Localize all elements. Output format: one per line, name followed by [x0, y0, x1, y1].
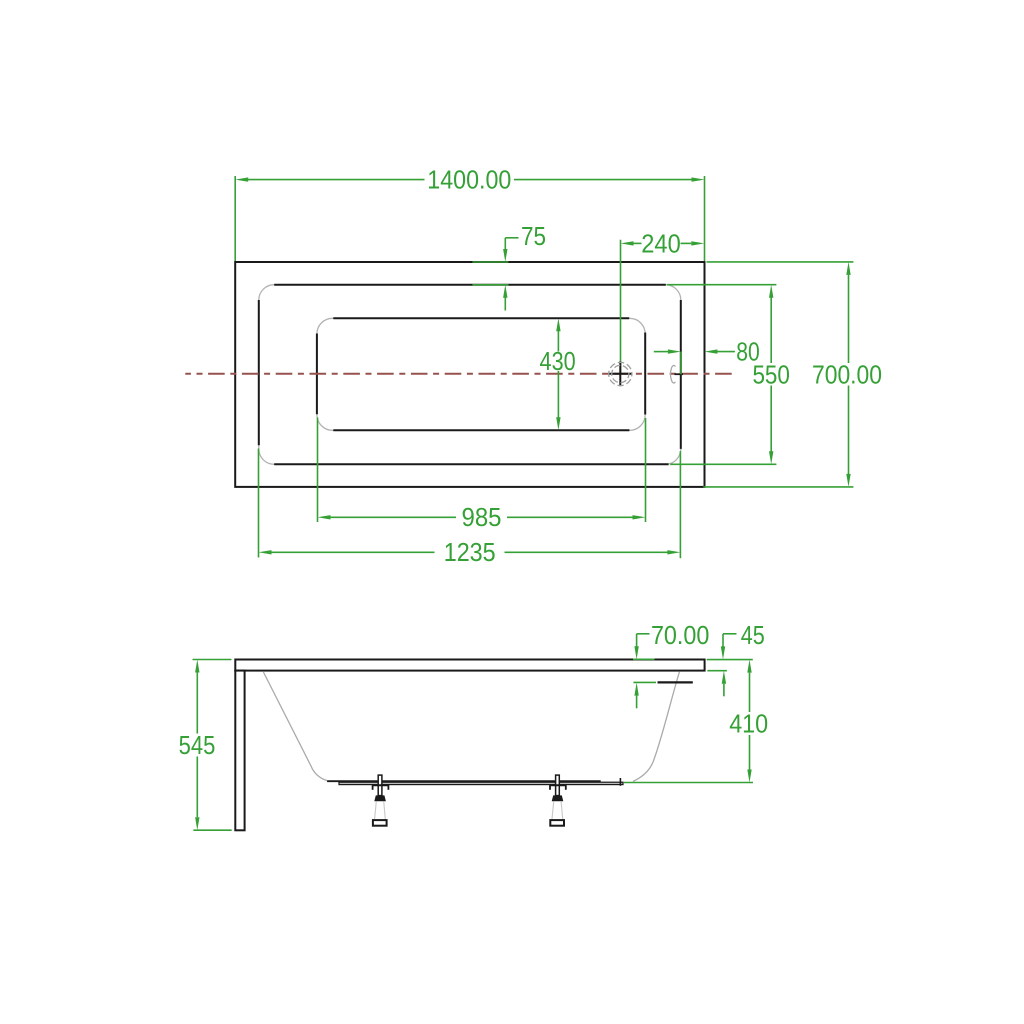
dimension 985 line [330, 516, 456, 518]
80-dimension extension overlay at inner rim edge [680, 352, 682, 375]
inner rim rounded corner arcs (gray) [259, 285, 681, 465]
985 arrows [318, 515, 331, 519]
side view arrowheads [195, 646, 752, 830]
inner rim straight edges (black) [259, 285, 681, 465]
bracket flange end ticks [549, 784, 551, 789]
foot pad [373, 820, 387, 826]
dimension 550 extension lines [667, 284, 776, 286]
left apron panel [235, 671, 244, 831]
leg cone [375, 801, 386, 820]
svg-text:1400.00: 1400.00 [427, 165, 511, 195]
deck rim bar (side view) [235, 660, 704, 671]
overflow level line [658, 681, 693, 683]
drain cross vertical [619, 361, 621, 386]
rail right end tick [619, 778, 621, 786]
70.00 arrows [634, 646, 638, 659]
overflow center tick [675, 373, 683, 375]
tub floor line [327, 780, 601, 782]
dimension 545 extension lines [193, 659, 232, 661]
dimension 410 line [749, 673, 751, 712]
430 arrows [556, 318, 560, 331]
dimension 70.00 witness overlays [633, 658, 655, 660]
550 arrows [769, 285, 773, 298]
1400.00 arrows [235, 177, 248, 181]
dimension 410 extension lines [707, 659, 753, 661]
dimension 550 line [770, 298, 772, 364]
svg-text:700.00: 700.00 [812, 359, 882, 389]
side view dimension texts [179, 620, 769, 760]
545 arrows [195, 660, 199, 673]
75 arrows [503, 249, 507, 262]
dimension 70.00 hook [636, 634, 638, 647]
svg-text:70.00: 70.00 [651, 620, 710, 650]
dimension 700.00 extension lines [707, 261, 854, 263]
svg-text:45: 45 [741, 620, 765, 650]
svg-text:545: 545 [179, 730, 216, 760]
bracket flange end ticks [372, 784, 374, 789]
drain cross horizontal [608, 373, 632, 375]
support rail [339, 782, 623, 784]
dimension 45 lower extension [707, 670, 727, 672]
bracket flange bar [550, 784, 566, 786]
tub left wall profile (gray) [263, 672, 327, 781]
dimension 700.00 line [848, 275, 850, 363]
overflow hole ellipse (open right) [671, 365, 676, 383]
red dash-dot centerline [185, 373, 733, 375]
dimension 1235 extension lines [258, 449, 260, 558]
svg-text:1235: 1235 [444, 537, 496, 567]
dimension 985 extension lines [317, 418, 319, 523]
svg-text:550: 550 [752, 359, 790, 389]
leg cone [552, 801, 563, 820]
410 arrows [747, 660, 751, 673]
240 arrows [621, 241, 634, 245]
svg-text:75: 75 [521, 221, 546, 251]
dimension 75 witness overlays [472, 261, 508, 263]
svg-text:985: 985 [462, 502, 502, 532]
dimension 80 shafts [654, 351, 669, 353]
leg nut (filled) [552, 795, 564, 801]
side view dimension lines [193, 634, 754, 830]
leg assembly right [550, 775, 566, 826]
svg-text:240: 240 [641, 228, 681, 258]
drain outer dashed circle [609, 362, 632, 385]
dimension 75 hook and shafts [504, 238, 506, 250]
tub right wall profile (gray) [633, 672, 680, 782]
dimension 545 line [196, 673, 198, 734]
dimension texts (top view) [427, 165, 882, 568]
45 arrows [721, 646, 725, 659]
leg nut (filled) [374, 795, 386, 801]
bolt shaft (outlined) [378, 775, 382, 796]
leg assembly left [372, 775, 388, 826]
dimension 1400.00 extension lines [234, 176, 236, 261]
svg-text:430: 430 [540, 346, 576, 376]
bracket flange bar [372, 784, 388, 786]
dimension 430 line [557, 331, 559, 352]
dimension 1235 line [271, 551, 434, 553]
tub floor rounded corner arcs (gray) [317, 318, 645, 430]
svg-text:410: 410 [729, 709, 768, 739]
extension line of 240 down to drain center [620, 240, 622, 374]
1235 arrows [259, 550, 272, 554]
tub floor straight edges (black) [317, 318, 645, 430]
foot pad [550, 820, 564, 826]
dimension 45 hook [722, 634, 724, 647]
drain inner dashed circle [612, 365, 629, 382]
dimension 1400.00 line [248, 179, 425, 181]
700.00 arrows [846, 262, 850, 275]
80 arrows [668, 349, 681, 353]
bolt shaft (outlined) [556, 775, 560, 796]
dimension arrowheads (top view) [235, 177, 851, 554]
bathtub outer rim rectangle (top view) [235, 262, 704, 487]
dimension 240 line [634, 242, 642, 244]
